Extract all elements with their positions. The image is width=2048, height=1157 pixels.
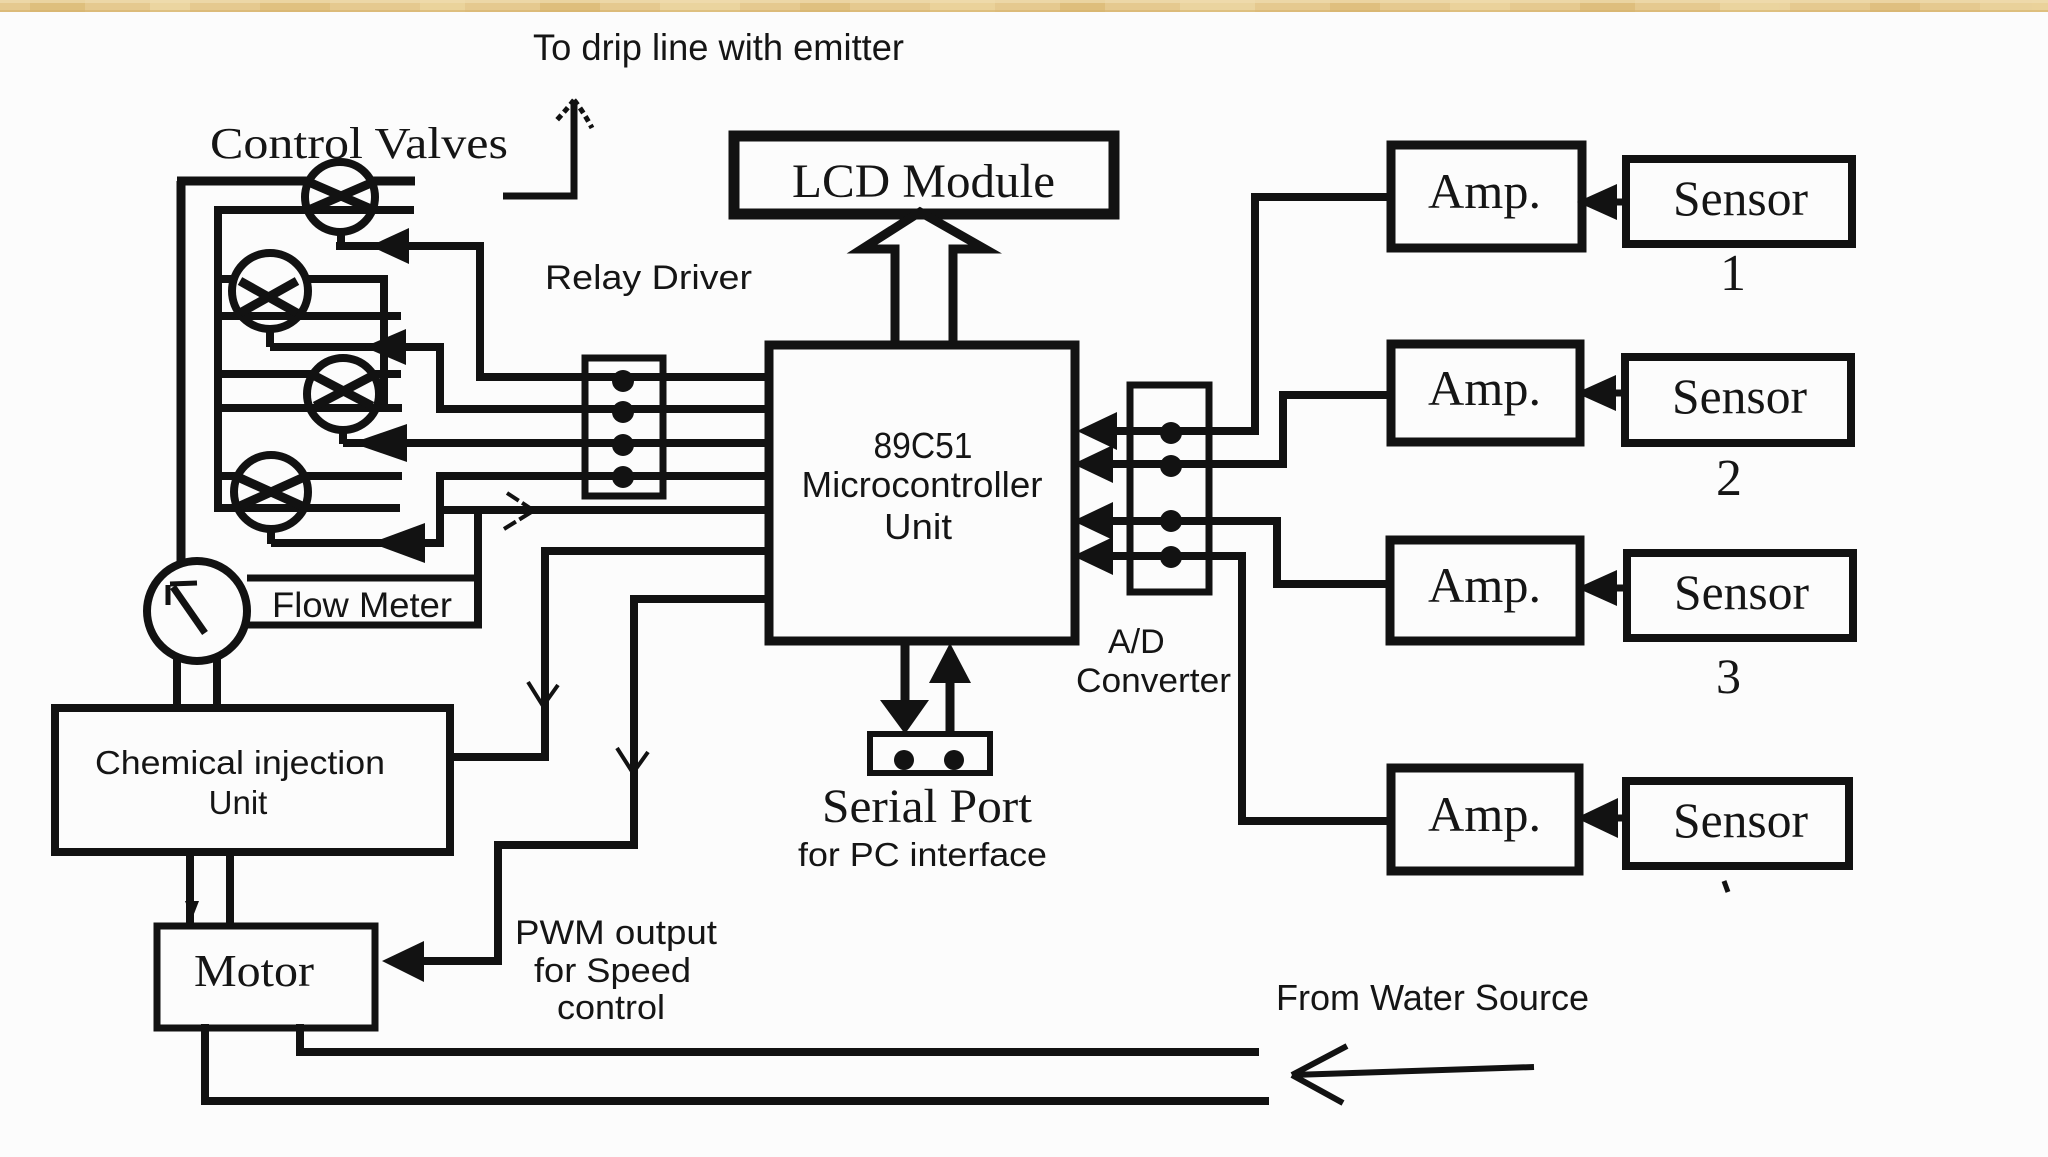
- sensor 4 block: [1626, 781, 1849, 866]
- svg-text:Relay Driver: Relay Driver: [545, 259, 752, 297]
- svg-text:Sensor: Sensor: [1672, 368, 1807, 424]
- control valve V4: [234, 455, 308, 544]
- small down arrowhead on motor pipe: [185, 901, 199, 919]
- svg-text:A/D: A/D: [1108, 623, 1165, 661]
- svg-text:for PC interface: for PC interface: [798, 836, 1047, 873]
- serial port connector block: [870, 734, 990, 773]
- svg-text:Amp.: Amp.: [1428, 557, 1541, 613]
- wire A/D row2 to Amp2: [1110, 395, 1391, 464]
- wire A/D row3 to Amp3: [1110, 521, 1390, 584]
- svg-text:Microcontroller: Microcontroller: [802, 464, 1043, 505]
- motor block: [157, 926, 375, 1028]
- wire PWM output from microcontroller to motor: [424, 599, 769, 961]
- hand-drawn right arrowhead on flow meter signal: [504, 493, 533, 529]
- svg-text:3: 3: [1716, 648, 1741, 704]
- wire bus 2 chain: [214, 210, 414, 506]
- label: A/D Converter: [1076, 623, 1231, 700]
- wire relay output 4 to valve V4 with arrowhead: [271, 476, 769, 543]
- svg-text:Sensor: Sensor: [1673, 170, 1808, 226]
- tick mark below sensor 4: [1724, 881, 1728, 892]
- wire microcontroller to chemical injection unit: [450, 551, 769, 757]
- svg-text:Amp.: Amp.: [1428, 163, 1541, 219]
- sensor 1 block: [1626, 159, 1852, 244]
- control valve V2: [232, 253, 308, 347]
- wire relay output 2 to valve V2 with arrowhead: [270, 347, 769, 409]
- top banner strip: [0, 0, 2048, 12]
- wire water supply upper line from motor: [300, 1024, 1259, 1052]
- wire flow meter to chemical injection unit pipes: [177, 655, 217, 708]
- wire relay output 3 to valve V3 with arrowhead: [343, 439, 769, 447]
- wire chemical injection unit to motor pipes: [190, 852, 230, 926]
- svg-text:89C51: 89C51: [874, 425, 973, 466]
- amplifier Amp2 block: [1391, 344, 1580, 442]
- relay driver contact dots: [612, 370, 634, 488]
- wire flow meter label bottom line: [247, 622, 482, 629]
- wire A/D row1 to Amp1: [1112, 197, 1391, 431]
- svg-text:Motor: Motor: [194, 945, 314, 996]
- hand-drawn down arrowhead on PWM wire: [617, 748, 648, 773]
- svg-text:Sensor: Sensor: [1674, 564, 1809, 620]
- control valve V3: [307, 358, 379, 444]
- sensor 2 block: [1625, 357, 1851, 443]
- wire valve4 lower pipe: [214, 504, 400, 512]
- A/D converter block: [1130, 385, 1209, 592]
- amplifier Amp1 block: [1391, 145, 1582, 248]
- wire valve2 upper pipe: [214, 279, 384, 408]
- wire sensor2 to amp2 arrowhead: [1612, 390, 1625, 397]
- svg-text:1: 1: [1720, 245, 1746, 302]
- svg-text:control: control: [557, 989, 665, 1027]
- svg-text:Amp.: Amp.: [1428, 360, 1541, 416]
- wire A/D row4 to Amp4: [1110, 556, 1391, 821]
- wire valve2 lower pipe: [214, 312, 401, 320]
- svg-text:Chemical injection: Chemical injection: [95, 744, 385, 781]
- serial port pins: [894, 750, 964, 770]
- svg-text:Unit: Unit: [884, 506, 952, 547]
- svg-text:PWM output: PWM output: [515, 914, 718, 952]
- svg-text:From Water Source: From Water Source: [1276, 977, 1589, 1018]
- A/D converter channel dots: [1160, 422, 1182, 568]
- wire sensor1 to amp1 arrowhead: [1613, 199, 1626, 206]
- hand-drawn arrow from water source: [1292, 1067, 1534, 1075]
- wire valve3 lower pipe: [214, 404, 402, 412]
- wire serial port to microcontroller up arrow: [946, 683, 955, 736]
- svg-text:Serial Port: Serial Port: [822, 780, 1033, 833]
- amplifier Amp4 block: [1391, 768, 1579, 871]
- chemical injection unit block: [55, 708, 450, 852]
- LCD Module block: [734, 136, 1114, 214]
- microcontroller U1 89C51: [769, 345, 1075, 641]
- wire to drip line with up arrowhead: [503, 100, 574, 196]
- amplifier Amp3 block: [1390, 540, 1580, 641]
- wire sensor3 to amp3 arrowhead: [1613, 585, 1627, 592]
- svg-text:2: 2: [1716, 450, 1742, 507]
- svg-text:To drip line with emitter: To drip line with emitter: [533, 27, 904, 68]
- wire valve4 upper pipe: [214, 472, 402, 480]
- svg-text:for Speed: for Speed: [534, 952, 691, 990]
- relay driver block: [585, 358, 663, 496]
- flow meter: [147, 561, 247, 661]
- sensor 3 block: [1627, 553, 1853, 638]
- wire microcontroller to serial port down arrow: [901, 645, 910, 705]
- wire valve3 upper pipe: [214, 370, 401, 378]
- wire sensor4 to amp4 arrowhead: [1612, 815, 1626, 822]
- hand-drawn down arrowhead on chemical injection wire: [528, 682, 558, 706]
- wire flow meter label top line: [247, 575, 478, 582]
- svg-text:LCD Module: LCD Module: [792, 155, 1055, 208]
- wire supply bus 1: [177, 181, 415, 566]
- svg-text:Converter: Converter: [1076, 662, 1231, 700]
- wire flow meter signal to microcontroller: [440, 506, 769, 514]
- svg-text:Sensor: Sensor: [1673, 792, 1808, 848]
- svg-text:Flow Meter: Flow Meter: [272, 586, 452, 625]
- wire relay output 1 to valve V1 with arrowhead: [336, 246, 769, 377]
- svg-text:Unit: Unit: [209, 784, 268, 821]
- svg-text:Control Valves: Control Valves: [210, 119, 508, 168]
- control valve V1: [305, 162, 375, 246]
- svg-text:Amp.: Amp.: [1428, 786, 1541, 842]
- wire water supply lower line from motor: [205, 1024, 1269, 1101]
- block arrow from microcontroller to LCD module: [862, 212, 985, 345]
- label: PWM output for Speed control: [515, 914, 718, 1027]
